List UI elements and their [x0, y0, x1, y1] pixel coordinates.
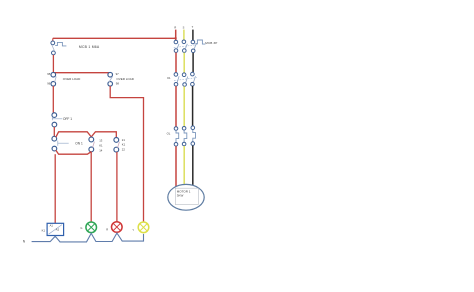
wire: S MCB to K1	[183, 53, 185, 73]
svg-text:K1: K1	[99, 143, 103, 147]
svg-text:21: 21	[122, 138, 126, 142]
wire: overload 98 to yellow lamp	[110, 86, 143, 222]
wire: R OL to motor	[175, 146, 177, 187]
wire: neutral bus	[32, 233, 144, 242]
svg-text:22: 22	[122, 148, 126, 152]
lamp red X	[114, 224, 121, 231]
svg-text:13: 13	[99, 139, 103, 143]
motor M1 nameplate	[175, 188, 198, 204]
svg-text:97: 97	[116, 72, 120, 76]
MCB 1 bottom terminal	[52, 51, 56, 55]
contactor K1 pole1 bottom	[174, 83, 178, 87]
wire: phase R stub	[175, 30, 177, 41]
lamp yellow H3	[138, 222, 149, 233]
contactor aux contact K1 13	[89, 137, 94, 142]
overload relay pole1 top	[174, 127, 178, 131]
wire: aux 22 to red lamp	[116, 152, 118, 222]
MCB 3P pole2 top	[182, 40, 186, 44]
wire: MCB1 to overload 95	[52, 55, 54, 73]
overload relay heater3	[193, 130, 196, 142]
wire: T MCB to K1	[192, 53, 194, 72]
overload OL2 terminal 97	[108, 72, 113, 77]
svg-text:K1: K1	[167, 76, 171, 80]
overload relay heater1	[176, 130, 179, 142]
contactor aux contact K1 14	[89, 147, 94, 152]
wire: stem to MCB1 top	[52, 38, 54, 41]
junction: control tap on phase R	[175, 37, 177, 39]
aux K1 21-22 blade	[118, 142, 120, 148]
wire: OFF1 to ON1	[53, 127, 55, 136]
svg-text:A2: A2	[56, 228, 60, 232]
svg-text:K1: K1	[122, 143, 126, 147]
wire: overload link 95 to 97	[53, 72, 110, 74]
aux K1 13-14 blade	[93, 142, 95, 148]
MCB 3P pole1 bottom	[174, 49, 178, 53]
svg-text:A1: A1	[50, 224, 54, 228]
overload relay heater2	[184, 130, 187, 142]
wire: S OL to motor	[183, 146, 185, 187]
contactor K1 blades	[177, 76, 195, 82]
MCB 1 breaker actuator symbol	[55, 42, 66, 46]
wire: T K1 to OL	[192, 86, 194, 126]
contactor K1 pole2 top	[182, 73, 186, 77]
motor M1 ellipse	[168, 184, 204, 210]
overload relay pole1 bottom	[174, 143, 178, 147]
wire: 96 to OFF1	[52, 86, 54, 113]
contactor K1 pole3 top	[191, 72, 195, 76]
svg-text:95: 95	[47, 72, 51, 76]
svg-text:OL: OL	[167, 131, 171, 135]
MCB 3P blades	[177, 44, 196, 49]
svg-text:OFF 1: OFF 1	[63, 117, 72, 121]
MCB 3P pole3 bottom	[191, 49, 195, 53]
svg-text:14: 14	[99, 148, 103, 152]
MCB 1 top terminal	[51, 41, 55, 45]
overload relay pole2 bottom	[182, 142, 186, 146]
MCB 3P mechanical link	[174, 45, 198, 48]
overload OL1 blade	[55, 77, 57, 83]
svg-text:ON 1: ON 1	[75, 142, 83, 146]
MCB 3P pole2 bottom	[183, 49, 187, 53]
svg-text:MCB 3P: MCB 3P	[205, 41, 217, 45]
contactor K1 pole1 top	[174, 73, 178, 77]
wire: phase S stub	[183, 30, 185, 40]
overload OL2 terminal 98	[108, 82, 113, 87]
svg-text:G: G	[80, 226, 82, 230]
svg-text:MCB 1 M6A: MCB 1 M6A	[79, 45, 100, 49]
lamp green X	[88, 224, 95, 231]
contactor K1 mechanical link	[174, 78, 197, 81]
svg-text:K1: K1	[42, 229, 46, 233]
svg-text:R: R	[174, 26, 176, 30]
MCB 3P pole1 top	[174, 40, 178, 44]
contactor K1 pole3 bottom	[191, 82, 195, 86]
svg-text:96: 96	[47, 82, 51, 86]
pushbutton OFF1 top terminal	[52, 113, 57, 118]
svg-text:98: 98	[116, 82, 120, 86]
lamp green H1	[86, 222, 97, 233]
overload relay pole2 top	[182, 127, 186, 131]
overload OL2 blade	[109, 76, 113, 82]
overload OL1 terminal 96	[51, 82, 56, 87]
svg-text:R: R	[106, 228, 108, 232]
MCB 3P breaker actuator symbol	[195, 40, 205, 44]
contactor aux contact K1 21	[114, 138, 119, 143]
pushbutton OFF1 bottom terminal	[52, 122, 57, 127]
contactor aux contact K1 22	[114, 147, 119, 152]
wire: drop to coil K1	[54, 154, 56, 223]
pushbutton ON1 actuator	[58, 141, 69, 146]
wire: aux 14 to green lamp	[90, 152, 92, 222]
pushbutton ON1 top terminal	[52, 136, 57, 141]
overload relay pole3 top	[191, 126, 195, 130]
pushbutton ON1 bottom terminal	[52, 146, 57, 151]
wire: T OL to motor	[192, 146, 194, 187]
lamp red H2	[112, 222, 123, 233]
wire: R K1 to OL	[175, 86, 177, 126]
svg-text:OVER LOAD: OVER LOAD	[116, 77, 134, 81]
overload OL1 terminal 95	[51, 72, 56, 77]
lamp yellow X	[140, 224, 147, 231]
overload relay pole3 bottom	[191, 142, 195, 146]
wire: control supply from phase R	[53, 37, 176, 39]
wire: phase T stub	[192, 30, 194, 40]
MCB 1 blade	[52, 45, 55, 51]
wire: ON1 top branch to holding contacts	[56, 132, 116, 138]
svg-text:OVER LOAD: OVER LOAD	[63, 77, 81, 81]
wire: ON1 bottom link to aux 14	[56, 150, 91, 154]
pushbutton OFF1 actuator	[52, 117, 62, 120]
svg-text:3KW: 3KW	[177, 194, 184, 198]
wire: R MCB to K1	[175, 53, 177, 73]
MCB 3P pole3 top	[191, 40, 195, 44]
wire: S K1 to OL	[183, 86, 185, 126]
svg-text:S: S	[183, 25, 185, 29]
coil K1 diagonal	[49, 225, 62, 235]
svg-text:Y: Y	[132, 228, 134, 232]
contactor K1 pole2 bottom	[183, 83, 187, 87]
coil K1 box	[47, 223, 64, 235]
